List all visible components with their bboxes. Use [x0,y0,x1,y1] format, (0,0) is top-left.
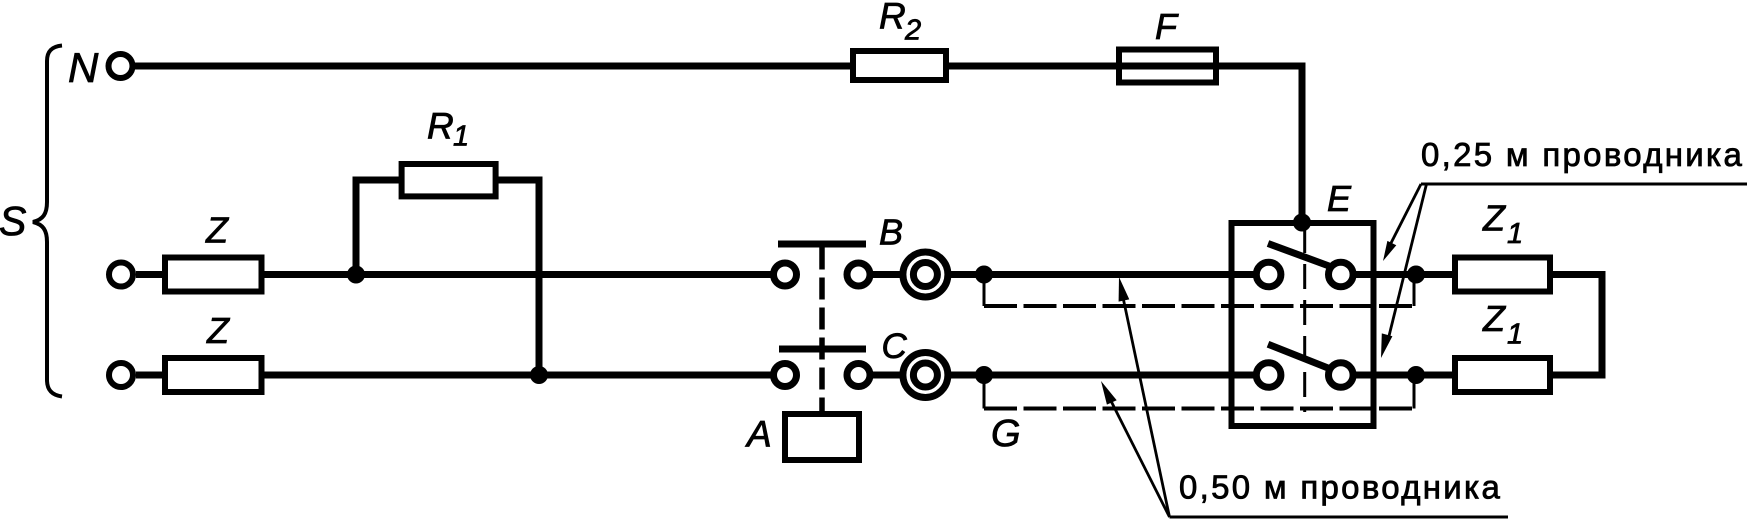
terminal lower phase [109,363,133,387]
measuring drop right upper [1413,278,1416,306]
wire contact B to connector [871,271,901,278]
svg-text:S: S [0,198,26,244]
dashed rail lower [984,407,1414,411]
node junction R1 left [347,266,365,284]
svg-text:A: A [745,414,772,455]
wire R1 right branch down to bottom wire [495,180,539,375]
switch blade upper [1268,244,1329,267]
disconnect bar upper [778,241,866,248]
wire contact C to connector [871,372,901,379]
resistor Z1 upper [1455,258,1550,292]
svg-text:Z: Z [1482,198,1506,239]
contact circle C right [847,364,870,387]
node junction Z1 upper [1407,266,1425,284]
svg-text:R: R [427,106,454,147]
resistor R1 [402,164,496,196]
wire R2 to F [946,66,1302,226]
switch blade lower [1268,344,1328,368]
measuring drop right lower [1413,378,1416,409]
connector B outer ring [903,252,948,297]
callout 0,25 arrow upper [1390,184,1421,245]
measuring drop left upper [983,278,986,306]
E mechanical link dashed [1303,228,1306,412]
fuse F [1119,50,1216,83]
node junction R1 right on bottom wire [530,366,548,384]
wire R1 left branch [356,180,402,275]
callout 0,50 arrow lower [1110,399,1170,517]
node junction at E top [1293,214,1311,232]
node junction Z1 lower [1407,366,1425,384]
connector B inner ring [913,263,937,287]
wire E to Z1 lower [1353,372,1455,379]
wire terminal to Z lower [136,372,166,379]
node junction C side [975,366,993,384]
svg-text:G: G [991,413,1021,455]
terminal N [109,54,133,78]
wire N to R2 [135,63,853,70]
contact circle C left [774,364,797,387]
svg-text:B: B [879,212,903,253]
switch contact E upper-right [1329,262,1354,287]
wire terminal to Z [136,271,166,278]
switch contact E lower-left [1256,363,1281,388]
svg-text:2: 2 [904,15,921,47]
svg-text:F: F [1155,6,1179,47]
wire connector C to E box [950,372,1257,379]
resistor R2 [853,51,946,80]
terminal upper phase [109,263,133,287]
callout 0,50 arrow upper [1123,295,1170,517]
callout 0,25 underline [1421,183,1747,186]
resistor Z lower [165,358,262,392]
switch contact E upper-left [1256,262,1281,287]
wire E to Z1 upper [1353,271,1455,278]
svg-text:Z: Z [1482,298,1506,339]
wire Z lower to contact C [263,372,772,379]
svg-text:0,25 м проводника: 0,25 м проводника [1421,136,1744,173]
svg-text:N: N [68,44,99,91]
switch box E [1232,223,1374,426]
contact circle B right [847,263,870,286]
svg-text:R: R [879,0,906,37]
actuator box A [785,414,859,460]
svg-text:1: 1 [453,121,469,153]
resistor Z1 lower [1455,358,1550,392]
wire Z1 right loop [1550,275,1602,376]
disconnect bar lower (cross) [779,346,866,353]
svg-text:1: 1 [1507,218,1523,250]
mechanical link dashed to A [819,248,825,412]
svg-text:E: E [1327,178,1352,219]
svg-text:0,50 м проводника: 0,50 м проводника [1179,469,1502,506]
svg-text:C: C [882,327,908,366]
dashed rail upper [984,304,1414,308]
connector C outer ring [903,353,948,398]
callout 0,25 arrow lower [1388,184,1427,340]
wire Z to contact B [263,271,772,278]
measuring drop left lower [983,378,986,409]
svg-text:1: 1 [1507,319,1523,351]
switch contact E lower-right [1329,363,1354,388]
contact circle B left [774,263,797,286]
wire connector B to E box [950,271,1257,278]
brace S (supply group) [33,46,62,397]
resistor Z upper [165,258,262,292]
connector C inner ring [913,363,937,387]
svg-text:Z: Z [206,310,230,351]
callout 0,50 underline [1170,516,1509,519]
svg-text:Z: Z [205,210,229,251]
node junction B side [975,266,993,284]
